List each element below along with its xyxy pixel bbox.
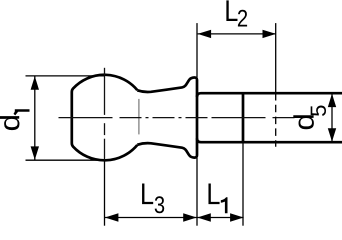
shaft top line with fillet [197, 93, 342, 97]
extension line L3 left (ball centerline, lower solid) [104, 160, 106, 225]
hidden dashed continuation through shaft [275, 93, 277, 147]
thin ball-neck tangency line [138, 99, 140, 134]
d5 dimension arrow [331, 95, 333, 142]
extension line d1 top [26, 75, 105, 77]
label L2 [226, 0, 237, 21]
horizontal centerline [59, 117, 296, 119]
dimension line d1 [34, 76, 36, 160]
shaft bottom line with fillet [197, 138, 342, 142]
neck and collar outline [137, 77, 197, 157]
extension line collar face lower [196, 158, 198, 226]
label d5 subscript 5 (rotated) [311, 105, 326, 115]
feature edge line on shaft [242, 93, 245, 142]
label d1 subscript 1 (rotated) [14, 109, 30, 115]
label L1 [208, 183, 219, 204]
dimension line L2 [198, 33, 276, 35]
label L3 [142, 183, 153, 204]
dimension line L3 L1 [105, 217, 244, 219]
extension line d1 bottom [26, 159, 105, 161]
extension line L2 right upper [275, 23, 277, 93]
label d1 [0, 116, 19, 130]
ball outline [72, 75, 138, 161]
label d5 [293, 115, 314, 129]
extension line feature lower [242, 142, 244, 226]
vertical centerline of ball [104, 68, 106, 115]
extension line L2 left (collar face, upper) [196, 23, 198, 77]
